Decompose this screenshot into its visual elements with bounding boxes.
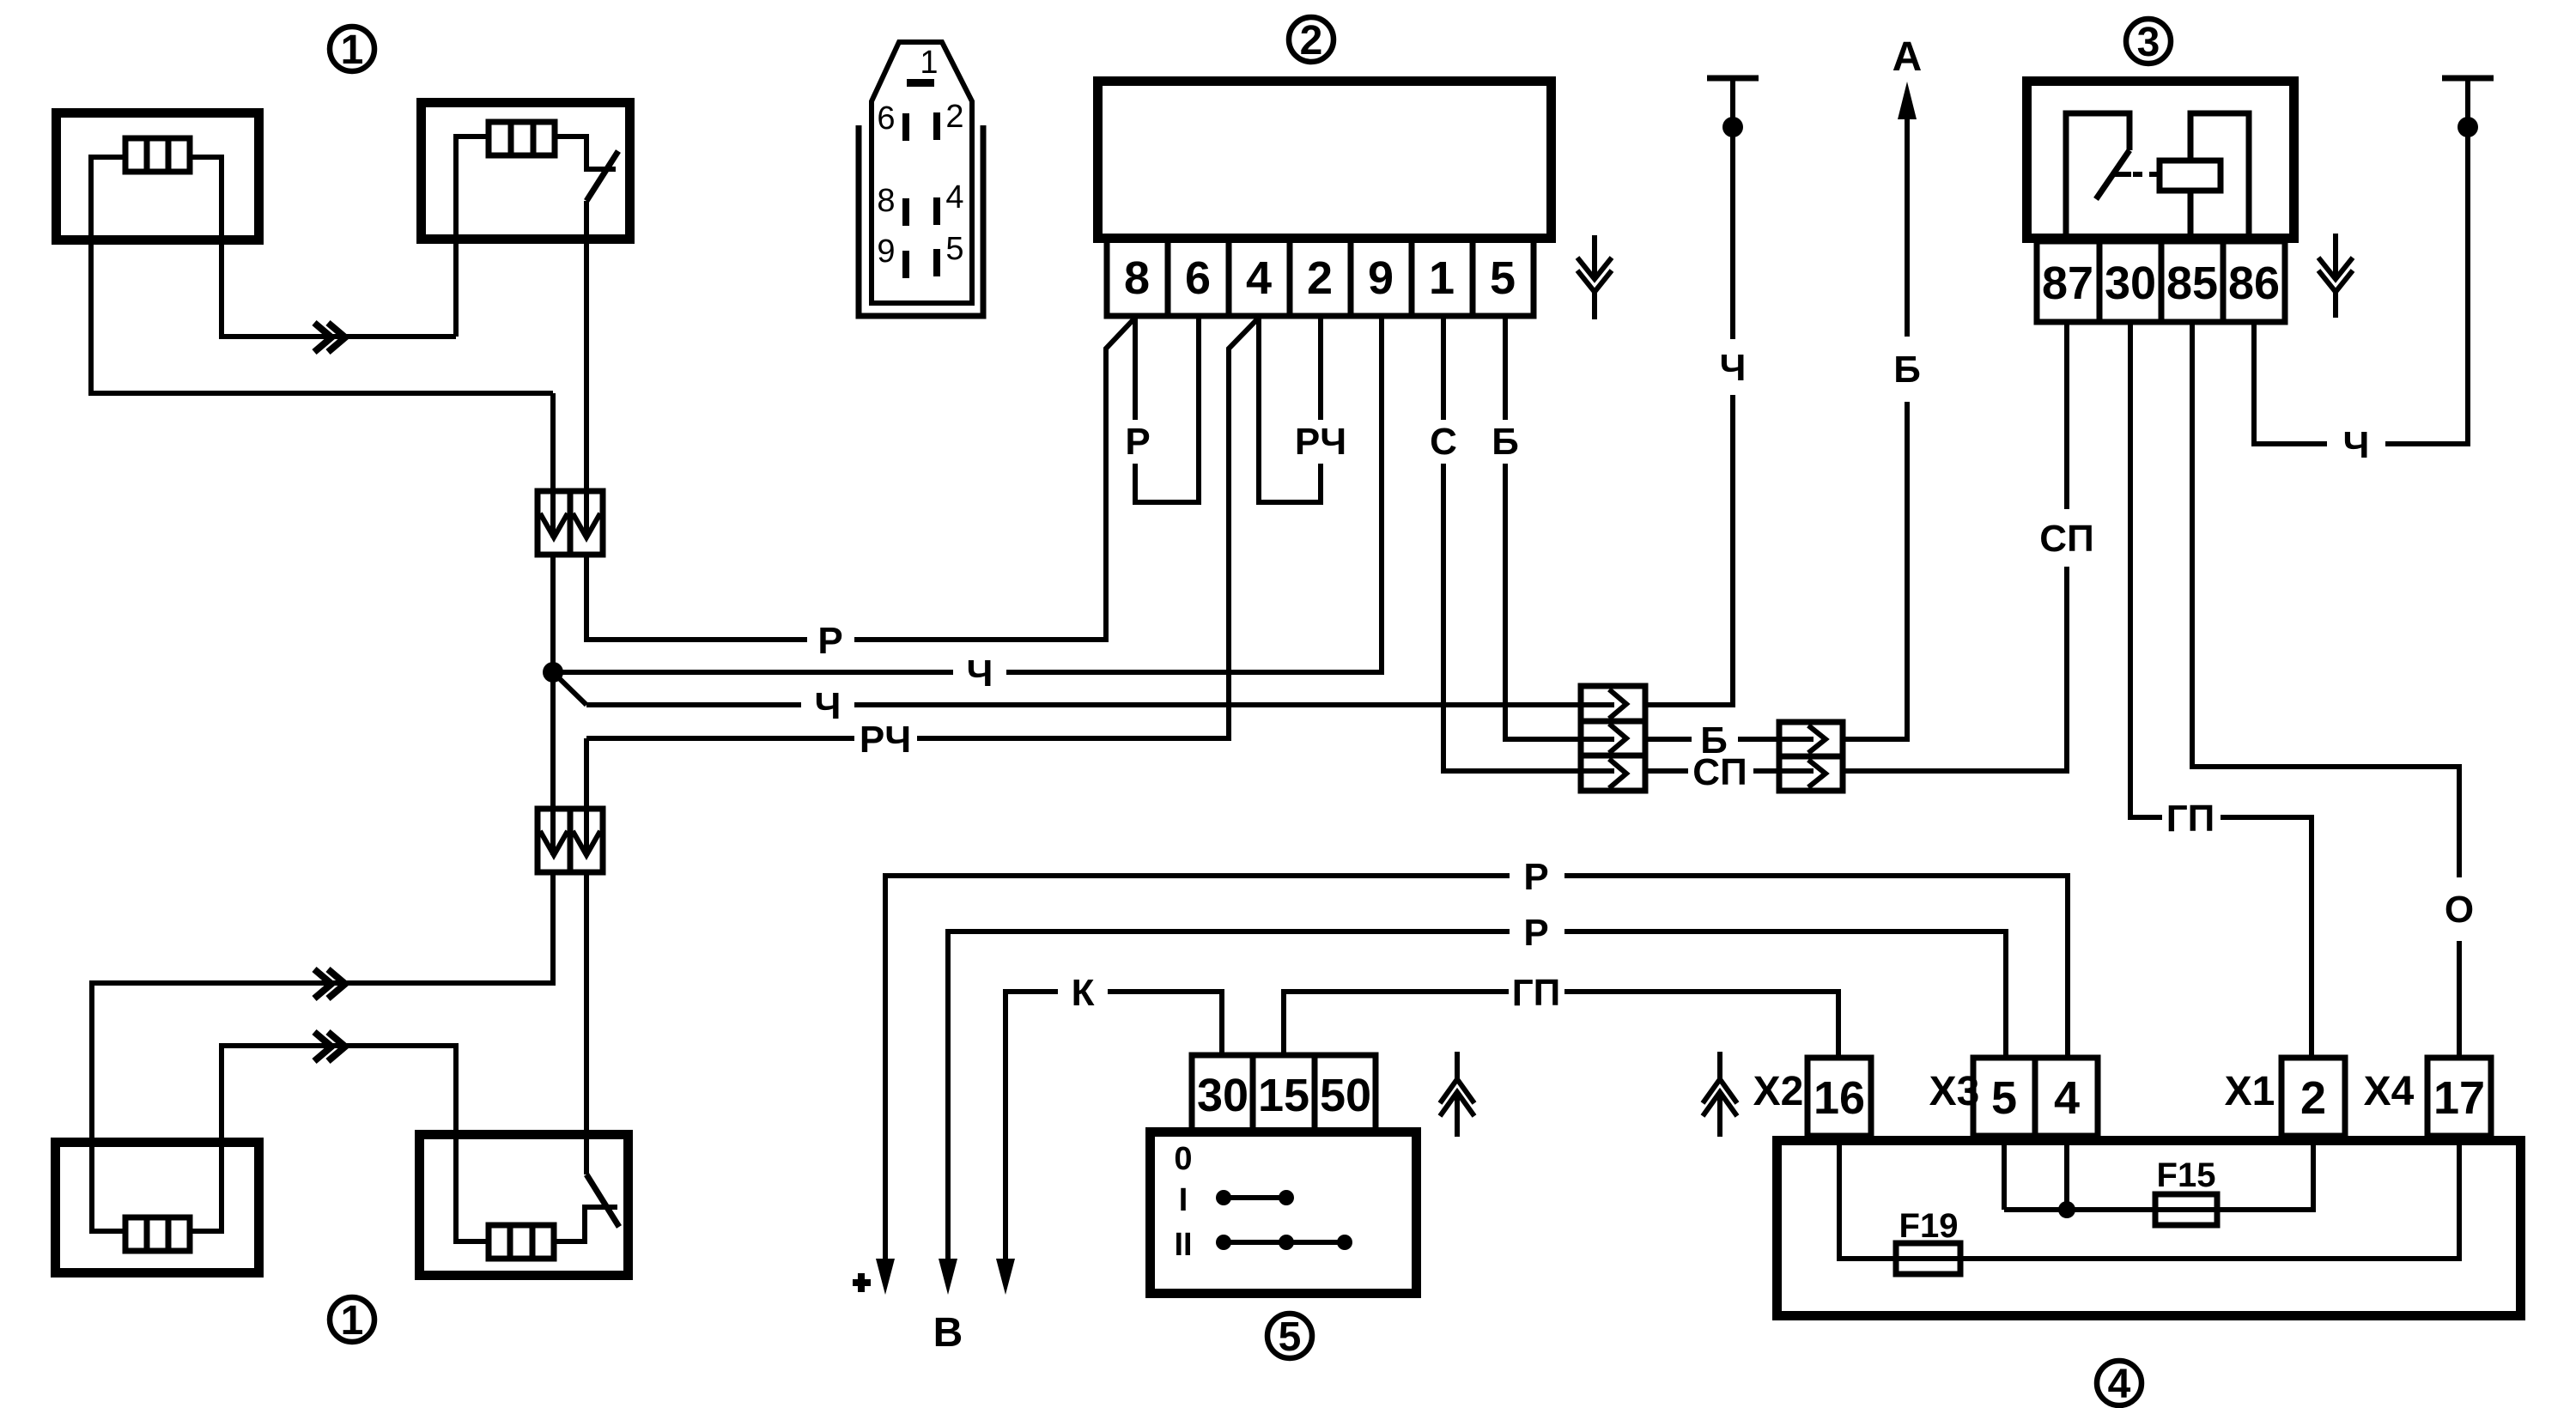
svg-text:Ч: Ч — [1720, 347, 1747, 389]
svg-text:9: 9 — [877, 234, 895, 270]
svg-text:8: 8 — [1124, 252, 1150, 304]
svg-text:ГП: ГП — [1512, 972, 1561, 1014]
svg-text:Ч: Ч — [815, 685, 841, 727]
svg-text:Р: Р — [1523, 912, 1548, 954]
svg-text:ГП: ГП — [2166, 798, 2215, 840]
svg-text:4: 4 — [2108, 1362, 2131, 1407]
svg-text:1: 1 — [1429, 252, 1455, 304]
svg-text:0: 0 — [1174, 1141, 1192, 1177]
svg-text:85: 85 — [2166, 258, 2218, 309]
svg-text:4: 4 — [1246, 252, 1272, 304]
svg-text:СП: СП — [1692, 751, 1747, 793]
svg-text:РЧ: РЧ — [1295, 421, 1346, 463]
svg-text:Р: Р — [1125, 421, 1150, 463]
svg-text:Р: Р — [817, 620, 842, 662]
svg-text:2: 2 — [2300, 1072, 2326, 1124]
svg-text:I: I — [1179, 1182, 1188, 1218]
svg-text:9: 9 — [1368, 252, 1394, 304]
svg-text:1: 1 — [341, 1298, 364, 1344]
svg-text:6: 6 — [877, 100, 895, 137]
svg-text:17: 17 — [2433, 1072, 2485, 1124]
svg-text:X1: X1 — [2225, 1069, 2275, 1114]
svg-text:4: 4 — [2054, 1072, 2080, 1124]
svg-text:F19: F19 — [1899, 1207, 1959, 1245]
svg-text:15: 15 — [1258, 1070, 1309, 1121]
svg-text:А: А — [1893, 34, 1923, 80]
svg-text:6: 6 — [1185, 252, 1211, 304]
svg-text:В: В — [933, 1310, 963, 1356]
svg-text:4: 4 — [945, 179, 963, 215]
svg-text:РЧ: РЧ — [860, 719, 911, 761]
svg-text:1: 1 — [920, 45, 938, 81]
svg-text:F15: F15 — [2157, 1156, 2216, 1194]
svg-text:Ч: Ч — [2343, 424, 2370, 466]
svg-text:5: 5 — [945, 231, 963, 267]
svg-text:СП: СП — [2039, 518, 2093, 560]
svg-text:Б: Б — [1492, 421, 1519, 463]
svg-text:5: 5 — [1490, 252, 1516, 304]
svg-text:С: С — [1430, 421, 1457, 463]
svg-text:5: 5 — [1991, 1072, 2017, 1124]
svg-text:2: 2 — [1300, 18, 1323, 64]
svg-text:2: 2 — [1307, 252, 1333, 304]
svg-text:К: К — [1072, 972, 1095, 1014]
svg-text:II: II — [1174, 1227, 1192, 1263]
svg-text:16: 16 — [1814, 1072, 1865, 1124]
svg-text:30: 30 — [1197, 1070, 1249, 1121]
svg-text:8: 8 — [877, 183, 895, 219]
svg-text:X2: X2 — [1753, 1069, 1804, 1114]
svg-text:50: 50 — [1320, 1070, 1371, 1121]
svg-text:О: О — [2445, 889, 2474, 931]
svg-text:1: 1 — [341, 27, 364, 73]
svg-text:5: 5 — [1279, 1314, 1302, 1360]
svg-text:Ч: Ч — [967, 652, 993, 695]
svg-text:87: 87 — [2042, 258, 2093, 309]
svg-text:X4: X4 — [2364, 1069, 2415, 1114]
svg-text:30: 30 — [2105, 258, 2156, 309]
svg-text:86: 86 — [2228, 258, 2280, 309]
svg-text:Р: Р — [1523, 856, 1548, 898]
svg-text:2: 2 — [945, 99, 963, 135]
svg-text:Б: Б — [1893, 349, 1921, 391]
svg-text:3: 3 — [2137, 20, 2160, 65]
